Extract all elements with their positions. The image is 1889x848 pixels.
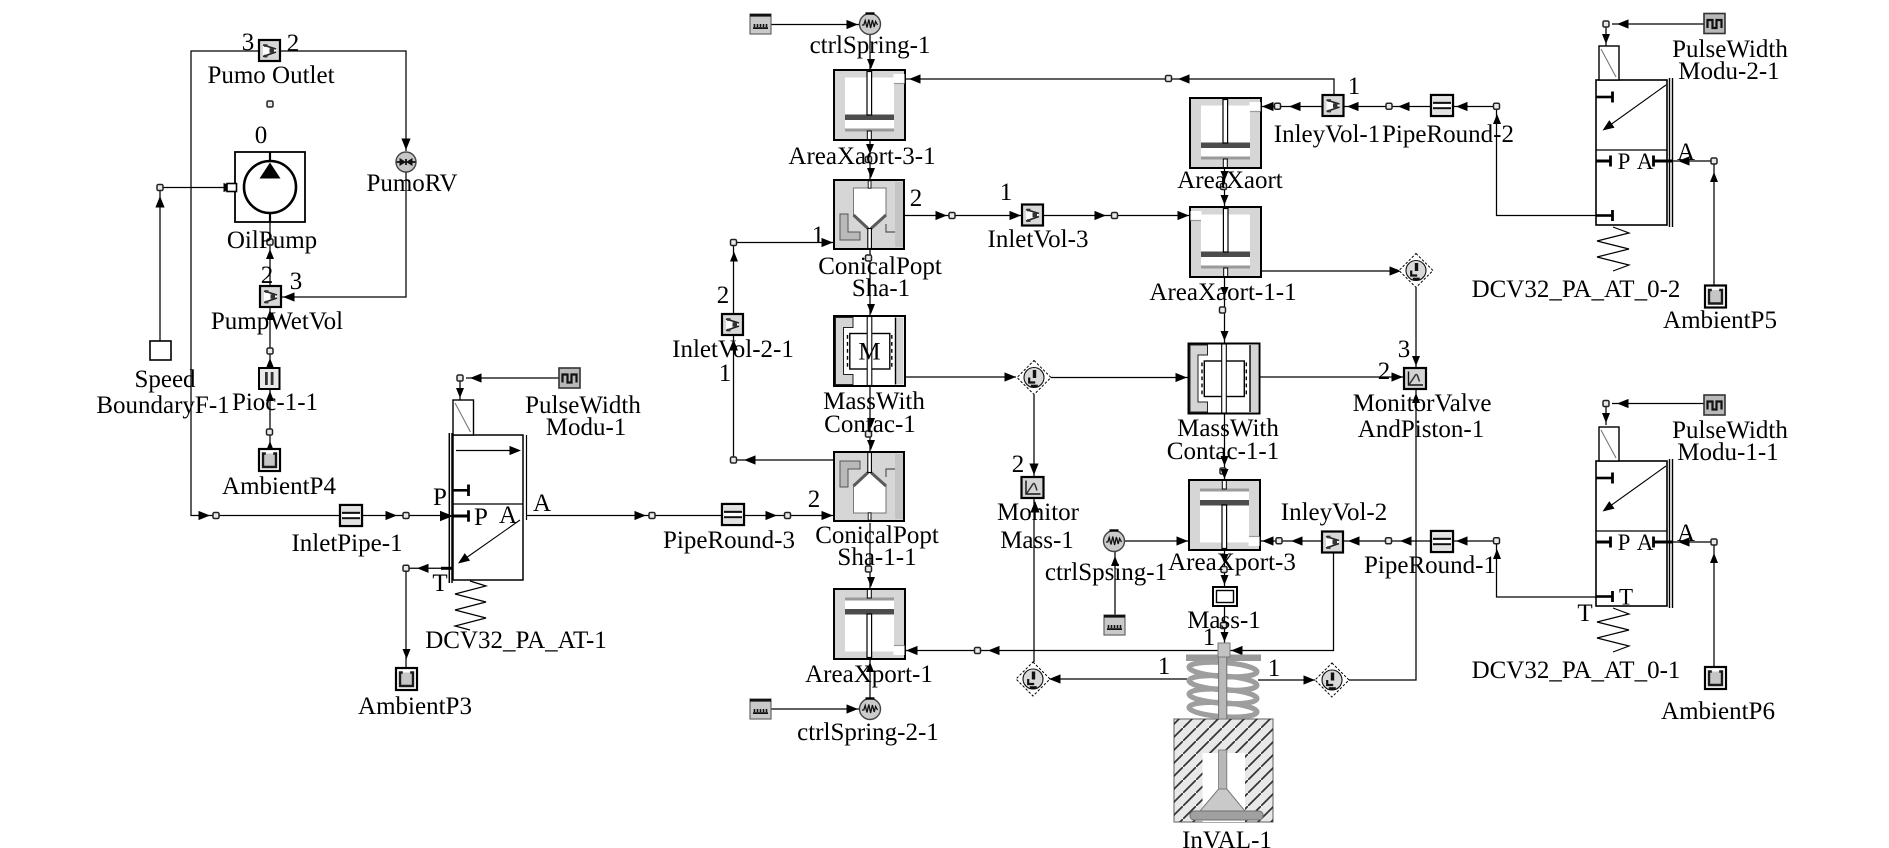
wire PulseWidthModu-2-1 to DCV32_PA_AT_0-2 solenoid: [1606, 24, 1704, 46]
svg-text:1: 1: [1000, 179, 1013, 206]
wire lower gauge to InVAL spring left: [1049, 678, 1187, 680]
wire ConicalPoptSha-1 to MassWithContac-1: [869, 249, 871, 316]
svg-text:AreaXport-1: AreaXport-1: [805, 661, 933, 688]
3-port volume InletVol-3: [1022, 205, 1043, 226]
svg-text:0: 0: [255, 122, 268, 149]
svg-text:T: T: [432, 570, 447, 597]
wire PipeRound-1 to DCV32_PA_AT_0-1 T port: [1453, 541, 1596, 597]
monitor MonitorMass-1: [1022, 477, 1044, 498]
3-port volume InleyVol-2: [1322, 532, 1343, 553]
svg-text:2: 2: [910, 185, 923, 212]
wire DCV32_PA_AT_0-1 A port to AmbientP6: [1673, 542, 1714, 667]
relief valve PumoRV: [396, 152, 416, 172]
svg-text:BoundaryF-1: BoundaryF-1: [96, 392, 229, 419]
svg-text:AmbientP5: AmbientP5: [1663, 307, 1777, 334]
svg-text:DCV32_PA_AT_0-2: DCV32_PA_AT_0-2: [1472, 276, 1681, 303]
svg-text:2: 2: [808, 486, 821, 513]
svg-text:A: A: [1677, 139, 1695, 166]
svg-text:2: 2: [287, 30, 300, 57]
wire AreaXaort to AreaXaort-1-1: [1224, 168, 1226, 207]
mass Mass-1: [1213, 587, 1237, 606]
svg-text:T: T: [1619, 585, 1633, 610]
valve solenoid DCV32_PA_AT_0-1: [1599, 427, 1619, 461]
wire InletPipe-1 to DCV32_PA_AT-1 P port: [362, 515, 444, 517]
wire PipeRound-2 to DCV32_PA_AT_0-2 P port: [1453, 107, 1596, 216]
wire MassWithContac-1-1 to AreaXport-3: [1224, 414, 1226, 480]
mass MassWithContac-1: [834, 316, 905, 386]
svg-text:ctrlSpsing-1: ctrlSpsing-1: [1045, 559, 1167, 586]
wire AreaXport-3 to Mass-1: [1224, 549, 1226, 587]
svg-text:3: 3: [290, 268, 303, 295]
svg-text:Speed: Speed: [134, 366, 196, 393]
3-port volume InletVol-2-1: [722, 314, 743, 335]
valve solenoid DCV32_PA_AT-1: [453, 400, 474, 435]
signal source PulseWidthModu-2-1: [1704, 14, 1725, 34]
wire InleyVol-1 to PipeRound-2: [1343, 106, 1432, 108]
svg-text:2: 2: [1378, 358, 1391, 385]
wire const source to ctrlSpring-1: [770, 24, 859, 26]
conical poppet ConicalPoptSha-1: [834, 180, 904, 249]
3-port volume PumpWetVol: [260, 286, 281, 307]
svg-text:A: A: [1677, 520, 1695, 547]
svg-text:InleyVol-1: InleyVol-1: [1274, 121, 1380, 148]
svg-text:ctrlSpring-1: ctrlSpring-1: [810, 32, 931, 59]
svg-text:1: 1: [812, 222, 825, 249]
svg-text:P: P: [474, 504, 488, 531]
svg-text:1: 1: [1158, 653, 1171, 680]
svg-text:DCV32_PA_AT-1: DCV32_PA_AT-1: [425, 627, 607, 654]
3-port volume InleyVol-1: [1323, 95, 1344, 116]
mass MassWithContac-1-1: [1189, 344, 1260, 414]
svg-text:PipeRound-2: PipeRound-2: [1382, 121, 1514, 148]
wire InletVol-3 to AreaXaort-1-1: [1043, 215, 1190, 217]
wire OilPump to PumpWetVol: [269, 222, 271, 286]
wire node column through InletVol-2-1 to ConicalPoptSha-1 port1: [733, 243, 735, 461]
svg-text:1: 1: [1203, 624, 1216, 651]
svg-text:AmbientP6: AmbientP6: [1661, 698, 1775, 725]
cylinder port AreaXaort-1-1: [1190, 207, 1261, 277]
wire MassWithContac-1-1 to MonitorValveAndPiston-1: [1260, 376, 1404, 378]
engine intake valve InVAL-1: [1174, 643, 1273, 822]
pipe PipeRound-2: [1431, 95, 1453, 116]
gauge right of InVAL spring: [1315, 663, 1349, 697]
svg-text:InVAL-1: InVAL-1: [1182, 827, 1272, 848]
svg-text:InletVol-3: InletVol-3: [988, 226, 1089, 253]
svg-text:A: A: [1637, 149, 1654, 174]
svg-text:PipeRound-3: PipeRound-3: [663, 527, 795, 554]
directional valve DCV32_PA_AT-1: [441, 433, 527, 630]
svg-text:OilPump: OilPump: [227, 227, 317, 254]
pipe PipeRound-3: [722, 504, 744, 525]
pump OilPump: [227, 152, 305, 222]
wire AreaXport-3 right port to InleyVol-2: [1260, 540, 1322, 542]
svg-text:P: P: [1618, 149, 1631, 174]
svg-text:PipeRound-1: PipeRound-1: [1364, 552, 1496, 579]
pressure source AmbientP3: [396, 668, 417, 690]
wire InVAL spring right to gauge3: [1258, 679, 1315, 681]
svg-text:2: 2: [261, 262, 274, 289]
svg-text:InletPipe-1: InletPipe-1: [291, 530, 402, 557]
wire DCV32_PA_AT-1 A port to PipeRound-3: [527, 515, 722, 517]
signal const for ctrlSpsing-1: [1104, 615, 1125, 635]
svg-text:InletVol-2-1: InletVol-2-1: [672, 336, 794, 363]
wire Pumo Outlet port2 to PumoRV: [281, 51, 406, 151]
gauge below MonitorMass-1: [1016, 662, 1050, 696]
svg-text:AreaXaort: AreaXaort: [1177, 167, 1283, 194]
svg-text:MonitorValve: MonitorValve: [1353, 390, 1492, 417]
wire PulseWidthModu-1-1 to DCV32_PA_AT_0-1 solenoid: [1606, 404, 1704, 426]
svg-text:Mass-1: Mass-1: [1187, 607, 1261, 634]
svg-text:Mass-1: Mass-1: [1000, 527, 1074, 554]
pressure source AmbientP4: [259, 449, 280, 471]
wire SpeedBoundaryF-1 to OilPump: [160, 188, 227, 342]
pressure source AmbientP5: [1705, 286, 1726, 308]
wire Pioc-1-1 to AmbientP4: [269, 389, 271, 449]
node above OilPump: [267, 101, 273, 107]
svg-text:AndPiston-1: AndPiston-1: [1358, 416, 1484, 443]
wire DCV32_PA_AT-1 T port to AmbientP3: [406, 568, 441, 668]
pipe PipeRound-1: [1431, 531, 1453, 552]
3-port volume Pumo Outlet: [259, 40, 280, 61]
svg-text:Pumo Outlet: Pumo Outlet: [207, 62, 334, 89]
wire const source to ctrlSpsing-1: [1114, 552, 1116, 615]
svg-text:Modu-1-1: Modu-1-1: [1677, 439, 1778, 466]
wire MassWithContac-1 to gauge to MassWithContac-1-1: [905, 376, 1016, 378]
wire PulseWidthModu-1 to DCV32_PA_AT-1 solenoid: [460, 378, 559, 400]
svg-text:Sha-1-1: Sha-1-1: [837, 544, 916, 571]
wire DCV32_PA_AT_0-2 A port to AmbientP5: [1673, 161, 1714, 286]
wire gauge3 to MonitorValveAndPiston-1: [1349, 389, 1416, 680]
directional valve DCV32_PA_AT_0-1: [1596, 459, 1673, 652]
cylinder port AreaXport-3: [1189, 480, 1260, 550]
wire gauge to MonitorMass-1: [1033, 395, 1035, 477]
wire PipeRound-3 to ConicalPoptSha-1-1 port2: [745, 515, 834, 517]
svg-text:Modu-2-1: Modu-2-1: [1678, 58, 1779, 85]
conical poppet ConicalPoptSha-1-1: [834, 452, 904, 521]
wire ctrlSpring-1 to AreaXaort-3-1: [869, 35, 871, 70]
cylinder port AreaXport-1: [834, 589, 905, 659]
wire AreaXport-1 rod to ctrlSpring-2-1: [869, 660, 871, 699]
directional valve DCV32_PA_AT_0-2: [1596, 78, 1673, 271]
svg-text:InleyVol-2: InleyVol-2: [1281, 499, 1387, 526]
svg-text:A: A: [499, 502, 517, 529]
svg-text:Modu-1: Modu-1: [546, 414, 627, 441]
svg-text:AreaXport-3: AreaXport-3: [1168, 549, 1296, 576]
svg-text:Monitor: Monitor: [997, 499, 1080, 526]
wire Mass-1 to InVAL-1 stem: [1224, 606, 1226, 643]
wire AreaXaort-3-1 to ConicalPoptSha-1: [869, 140, 871, 180]
wire InleyVol-2 to PipeRound-1: [1344, 540, 1431, 542]
spring ctrlSpsing-1: [1104, 531, 1125, 552]
wire const source to ctrlSpring-2-1: [770, 708, 859, 710]
wire AreaXaort-3-1 right port to InleyVol-1 top: [905, 79, 1334, 95]
svg-text:3: 3: [242, 29, 255, 56]
signal const for ctrlSpring-1: [750, 14, 771, 34]
pipe InletPipe-1: [340, 505, 362, 526]
svg-text:P: P: [433, 484, 447, 511]
spring ctrlSpring-2-1: [860, 699, 881, 720]
gauge between MassWithContac-1 and -1-1: [1017, 361, 1051, 395]
svg-text:M: M: [858, 339, 880, 366]
monitor MonitorValveAndPiston-1: [1404, 368, 1426, 389]
wire MassWithContac-1 to ConicalPoptSha-1-1: [869, 386, 871, 452]
wire AreaXaort-1-1 to gauge4: [1260, 270, 1400, 272]
wire ConicalPoptSha-1-1 to AreaXport-1: [869, 523, 871, 589]
wire PumpWetVol to Pioc-1-1: [269, 307, 271, 368]
wire PumoRV to PumpWetVol port3: [282, 172, 406, 297]
svg-text:AmbientP3: AmbientP3: [358, 693, 472, 720]
wire AreaXaort-1-1 to MassWithContac-1-1: [1224, 277, 1226, 343]
svg-text:1: 1: [719, 360, 732, 387]
svg-text:PumoRV: PumoRV: [366, 170, 457, 197]
svg-text:1: 1: [1348, 73, 1361, 100]
svg-text:2: 2: [717, 282, 730, 309]
spring ctrlSpring-1: [860, 14, 881, 35]
signal source PulseWidthModu-1: [559, 368, 580, 388]
svg-text:ctrlSpring-2-1: ctrlSpring-2-1: [797, 719, 939, 746]
valve solenoid DCV32_PA_AT_0-2: [1599, 46, 1619, 80]
wire node to ConicalPoptSha-1 port1: [734, 242, 835, 244]
signal const for ctrlSpring-2-1: [750, 699, 771, 719]
pressure source AmbientP6: [1705, 667, 1726, 689]
svg-text:A: A: [1637, 530, 1654, 555]
wire gauge4 to MonitorValveAndPiston-1 top: [1415, 288, 1417, 368]
signal source PulseWidthModu-1-1: [1704, 395, 1725, 415]
wire Pumo Outlet port3 to InletPipe-1 (left trunk): [191, 51, 340, 516]
svg-text:A: A: [533, 490, 551, 517]
orifice Pioc-1-1: [259, 368, 280, 389]
svg-text:Sha-1: Sha-1: [852, 275, 910, 302]
wire AreaXaort right port to InleyVol-1: [1260, 106, 1323, 108]
svg-text:PumpWetVol: PumpWetVol: [211, 308, 343, 335]
wire ConicalPoptSha-1 port2 to InletVol-3: [904, 215, 1022, 217]
svg-text:1: 1: [1268, 655, 1281, 682]
speed source SpeedBoundaryF-1: [150, 341, 171, 360]
wire AreaXport-1 port to InVAL stem and InleyVol-2: [905, 650, 1218, 652]
svg-text:AreaXaort-1-1: AreaXaort-1-1: [1149, 279, 1296, 306]
wire ConicalPoptSha-1-1 port1 to node column: [734, 459, 835, 461]
svg-text:AreaXaort-3-1: AreaXaort-3-1: [788, 143, 935, 170]
svg-text:3: 3: [1398, 336, 1411, 363]
wire MonitorMass-1 to lower gauge: [1033, 498, 1035, 662]
svg-text:T: T: [1577, 600, 1592, 627]
cylinder port AreaXaort: [1190, 98, 1261, 168]
cylinder port AreaXaort-3-1: [834, 70, 905, 140]
svg-text:Pioc-1-1: Pioc-1-1: [232, 389, 318, 416]
wire ctrlSpsing-1 to AreaXport-3: [1125, 540, 1190, 542]
svg-text:DCV32_PA_AT_0-1: DCV32_PA_AT_0-1: [1472, 657, 1681, 684]
svg-text:Contac-1: Contac-1: [824, 411, 916, 438]
svg-text:2: 2: [1012, 451, 1025, 478]
gauge above MonitorValveAndPiston-1: [1399, 254, 1433, 288]
svg-text:AmbientP4: AmbientP4: [222, 473, 336, 500]
svg-text:Contac-1-1: Contac-1-1: [1167, 438, 1279, 465]
svg-text:P: P: [1618, 530, 1631, 555]
